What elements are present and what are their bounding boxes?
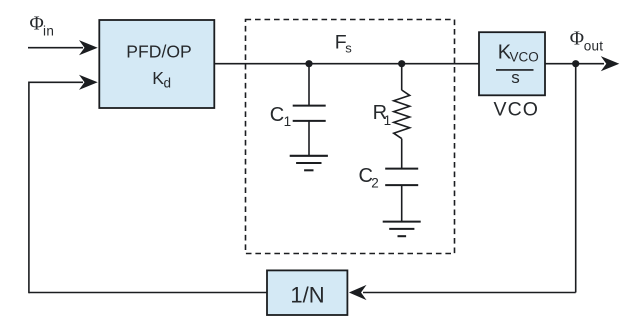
svg-text:Φ: Φ [570,28,584,49]
arrowhead into divider [349,285,367,300]
wire R1 to C2 [401,139,403,169]
svg-text:PFD/OP: PFD/OP [126,41,192,61]
block U2 VCO Kvco/s [479,32,545,95]
ground under C1 [290,155,328,157]
svg-text:out: out [584,38,604,53]
svg-text:d: d [164,75,172,90]
arrowhead output [601,56,620,71]
svg-text:VCO: VCO [494,99,540,121]
wire C1 to ground [308,121,310,155]
dashed loop-filter box [246,20,455,254]
resistor R1 [394,90,410,139]
wire node to R1 [401,64,403,90]
block U1 PFD/OP Kd [99,20,214,108]
wire feedback up left [28,82,30,294]
svg-text:1: 1 [284,114,292,129]
capacitor C2 [385,168,418,170]
capacitor C1 [293,105,326,107]
block U3 divider 1/N [267,270,347,315]
svg-text:C: C [270,104,284,126]
svg-text:1: 1 [384,113,392,128]
wire feedback bottom left [29,292,267,294]
node output junction [572,60,579,67]
svg-text:in: in [43,24,54,39]
wire node to C1 [308,64,310,106]
wire feedback down [575,64,577,293]
svg-text:Φ: Φ [30,14,44,35]
node junction C1 [305,60,312,67]
svg-text:s: s [511,68,520,87]
wire VCO output [545,63,604,65]
wire PFD output to VCO input [214,63,479,65]
arrowhead into PFD reference input [79,40,98,55]
svg-text:1/N: 1/N [290,283,324,308]
arrowhead into PFD feedback input [79,75,98,90]
svg-text:K: K [152,68,164,88]
svg-text:s: s [345,41,352,56]
wire feedback into PFD [29,81,83,83]
ground under C2 [383,221,421,223]
wire feedback bottom right [363,292,576,294]
svg-text:VCO: VCO [510,50,539,65]
svg-text:2: 2 [371,176,379,191]
wire C2 to ground [401,185,403,221]
wire reference input [28,47,83,49]
node junction R1 [398,60,405,67]
